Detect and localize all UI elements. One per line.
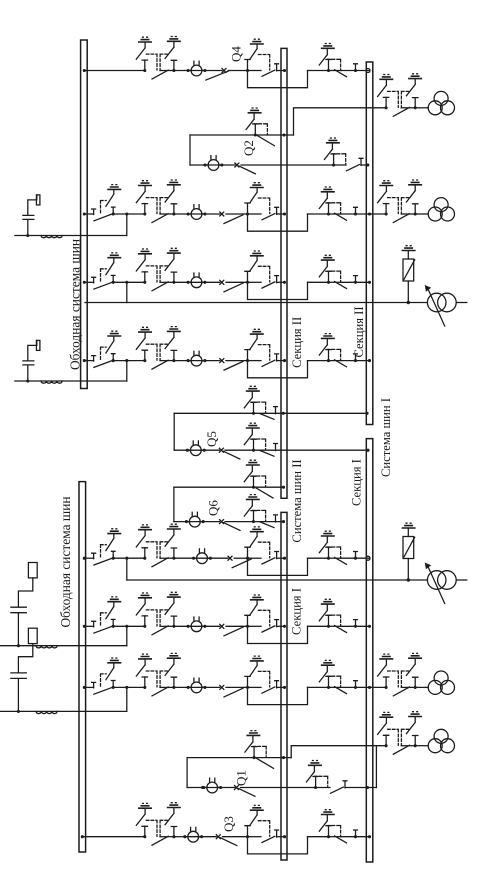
- wire bay 5 c: [234, 557, 247, 559]
- junction Q1 upper bus II: [282, 756, 285, 759]
- svg-text:Q2: Q2: [241, 140, 256, 156]
- wire bay 6 f: [308, 625, 329, 627]
- svg-text:Q6: Q6: [206, 500, 221, 516]
- wire bay 3 c: [226, 281, 248, 283]
- line tap drop bay 4: [126, 361, 128, 381]
- wire Q6 upper: [174, 486, 254, 488]
- wire Q4 bay b: [202, 70, 222, 72]
- line tap drop bay 7: [126, 687, 128, 711]
- wire Q4 bay d: [248, 70, 262, 72]
- bus I selector contact Q2: [359, 158, 363, 165]
- wire bay 7 from bypass bus: [84, 686, 93, 688]
- wire bay 6 b: [202, 625, 220, 627]
- wire Q1 lower b: [218, 787, 236, 789]
- earthing disconnector contact Q2 upper: [246, 108, 267, 137]
- earthing disconnector contact bay 3: [245, 251, 270, 284]
- disconnector blade bay 2: [224, 215, 243, 224]
- earthing disconnector contact Q1 lower: [306, 761, 327, 790]
- wire bay 6 from bypass bus: [84, 625, 93, 627]
- wire Q5 lower b: [201, 449, 219, 451]
- disconnector blade Q6 lower: [260, 522, 274, 528]
- junction bay 3 bus II: [283, 281, 286, 284]
- wire bay 3 d: [248, 281, 262, 283]
- svg-text:Система шин II: Система шин II: [290, 459, 304, 542]
- contact cross bay 4: [220, 359, 224, 363]
- disconnector blade Q6: [224, 523, 241, 531]
- bus II selector contact bay 6: [275, 620, 279, 627]
- wire bay 6 h: [341, 625, 370, 627]
- junction bay 5 line tap: [125, 557, 128, 560]
- transformer T1 (three-winding): [428, 91, 454, 114]
- disconnector blade Q2 upper: [258, 136, 275, 146]
- disconnector blade Q4 bay: [206, 71, 229, 80]
- wire Q6 lower: [174, 521, 190, 523]
- wire Q3 bay f: [308, 836, 329, 838]
- wire Q5 upper b: [254, 412, 368, 414]
- circuit breaker bay 4: [187, 351, 207, 366]
- earthing disconnector contact bay 6 2: [319, 599, 340, 628]
- wire Q3 bay from bypass bus: [82, 836, 145, 838]
- disconnector with two earthing switches feeder 3: [378, 712, 423, 755]
- junction Q4 bay g2: [354, 69, 357, 72]
- junction bay 5 bus II: [283, 557, 286, 560]
- disconnector blade bay 6: [224, 627, 243, 636]
- contact cross bay 2: [220, 212, 224, 216]
- disconnector blade bay 3: [224, 283, 243, 292]
- junction Q1 bus I: [366, 786, 369, 789]
- bus II selector blade Q3 bay: [262, 836, 275, 842]
- svg-text:Система шин I: Система шин I: [379, 398, 393, 477]
- bus II selector blade bay 5: [262, 558, 275, 564]
- coupling capacitor bay 2: [23, 195, 40, 237]
- disconnector with two earthing switches feeder 5: [378, 653, 423, 696]
- circuit breaker bay 6: [187, 617, 207, 632]
- wire bay 7 e: [277, 686, 285, 688]
- bypass disconnector with earthing switch bay 4: [92, 331, 122, 367]
- wire Q2 upper: [190, 134, 255, 136]
- wire bay 6 c: [226, 625, 248, 627]
- circuit breaker bay 5: [192, 549, 212, 564]
- bus I selector contact bay 5: [354, 552, 358, 559]
- contact cross bay 3: [220, 280, 224, 284]
- bus I selector contact Q1: [343, 781, 347, 788]
- svg-text:Секция I: Секция I: [290, 588, 304, 635]
- disconnector with two earthing switches Q4 bay: [136, 37, 181, 80]
- wire Q6 upper b: [254, 486, 285, 488]
- junction Q4 bay bypass bus: [83, 69, 86, 72]
- wire bay 7 c: [226, 686, 248, 688]
- wire bay 4 h: [341, 360, 370, 362]
- circuit breaker Q1: [202, 778, 222, 793]
- junction Q3 bay bus II: [283, 835, 286, 838]
- bus bus system I section II: [366, 62, 373, 425]
- wire bay 5 e: [277, 557, 285, 559]
- wire bay 7 f: [308, 686, 329, 688]
- wire bay 5 d: [248, 557, 262, 559]
- line tap drop bay 3: [126, 282, 128, 302]
- wire bay 3 b: [202, 281, 220, 283]
- svg-text:Обходная система шин: Обходная система шин: [58, 496, 73, 627]
- disconnector blade Q3 bay: [220, 838, 237, 846]
- bypass jog wire Q3 bay: [248, 837, 308, 854]
- wire Q3 bay g: [329, 836, 342, 838]
- bus II selector contact bay 7: [275, 681, 279, 688]
- junction bay 6 bypass bus: [83, 625, 86, 628]
- transformer T3 (three-winding): [428, 671, 454, 694]
- wire Q6 riser: [173, 487, 175, 521]
- bus II selector blade bay 2: [262, 214, 275, 220]
- wire bay 3 from bypass bus: [84, 281, 93, 283]
- earthing disconnector contact Q4 bay 2: [319, 44, 340, 73]
- junction Q3 bay bypass bus: [81, 835, 84, 838]
- junction bay 4 bus II: [283, 359, 286, 362]
- svg-text:Секция II: Секция II: [352, 306, 366, 357]
- earthing disconnector contact Q6 lower: [244, 495, 265, 524]
- wire bay 2 f: [308, 213, 329, 215]
- bus I selector contact bay 3: [354, 276, 358, 283]
- disconnector with two earthing switches bay 7: [136, 653, 181, 696]
- transmission line bay 7: [0, 710, 127, 712]
- earthing disconnector contact bay 5 2: [319, 531, 340, 560]
- wire bay 2 d: [248, 213, 262, 215]
- bus I selector blade bay 5: [335, 557, 347, 564]
- earthing disconnector contact bay 7 2: [319, 660, 340, 689]
- wire Q6 lower d: [254, 521, 285, 523]
- wire bay 2 from bypass bus: [84, 213, 93, 215]
- wire bay 2 c: [226, 213, 248, 215]
- junction Q2 bus I: [366, 163, 369, 166]
- wire feeder 3 drop to Q1: [375, 746, 377, 788]
- earthing disconnector contact Q5 upper: [244, 386, 265, 415]
- disconnector blade Q5 upper: [260, 414, 274, 420]
- wire feeder 3 to transformer: [415, 745, 428, 747]
- junction Q5 upper bus II: [282, 412, 285, 415]
- wire Q4 bay a: [174, 70, 191, 72]
- junction bay 3 line tap: [125, 281, 128, 284]
- junction bay 6 line tap: [125, 625, 128, 628]
- wire bay 5 link: [113, 557, 145, 559]
- wire bay 3 link: [113, 281, 145, 283]
- wire bay 5 from bypass bus: [84, 557, 93, 559]
- transmission line bay 2: [15, 235, 127, 237]
- bus II selector contact bay 5: [275, 552, 279, 559]
- earthing disconnector contact Q3 bay: [245, 805, 270, 838]
- wire bay 5 b: [207, 557, 228, 559]
- wire transformer feeder 1: [294, 108, 387, 135]
- bus I selector blade bay 6: [335, 626, 347, 633]
- bypass jog wire bay 6: [248, 626, 308, 643]
- circuit breaker Q5: [186, 441, 206, 456]
- disconnector with two earthing switches feeder 1: [378, 74, 423, 117]
- junction bay 3 bypass bus: [83, 281, 86, 284]
- junction bay 6 bus II: [283, 625, 286, 628]
- circuit breaker bay 7: [187, 678, 207, 693]
- wire bay 5 f: [308, 557, 329, 559]
- wire Q6 lower c: [225, 521, 254, 523]
- contact cross bay 7: [220, 685, 224, 689]
- wire bay 6 e: [277, 625, 285, 627]
- contact cross bay 5: [228, 556, 232, 560]
- junction Q3 bay g2: [354, 835, 357, 838]
- line trap (HF choke) bay 6: [36, 646, 57, 648]
- wire Q2 lower b: [219, 164, 235, 166]
- bus II selector blade bay 4: [262, 360, 275, 366]
- wire Q1 riser: [186, 758, 188, 788]
- junction bay 2 bus I: [368, 212, 371, 215]
- junction Q6 upper bus II: [282, 486, 285, 489]
- transformer T4 (three-winding): [428, 729, 454, 752]
- disconnector blade bay 5: [232, 559, 251, 568]
- earthing disconnector contact Q2 lower: [324, 138, 345, 167]
- wire bay 2 g: [329, 213, 342, 215]
- bus bypass bus (lower segment): [79, 482, 86, 852]
- junction bay 2 line tap: [125, 212, 128, 215]
- junction bay 7 g2: [354, 686, 357, 689]
- contact cross Q4 bay: [222, 69, 226, 73]
- svg-text:Q5: Q5: [204, 431, 219, 447]
- line trap (HF choke) bay 7: [36, 711, 57, 713]
- bus I selector blade Q2: [347, 165, 360, 171]
- circuit breaker Q2: [204, 156, 224, 171]
- bus II selector blade bay 6: [262, 626, 275, 632]
- junction bay 2 bypass bus: [83, 212, 86, 215]
- wire bay 4 e: [277, 360, 285, 362]
- line trap (HF choke) bay 2: [41, 236, 62, 238]
- bypass disconnector with earthing switch bay 5: [92, 529, 122, 565]
- bus I selector contact Q3 bay: [354, 830, 358, 837]
- wire Q5 upper: [174, 412, 253, 414]
- disconnector blade Q5: [223, 451, 240, 459]
- bus I selector blade Q3 bay: [335, 836, 347, 843]
- wire bay 2 b: [202, 213, 220, 215]
- contact Q5 upper: [274, 407, 278, 414]
- junction bay 3 g2: [354, 281, 357, 284]
- wire transformer feeder 3: [291, 746, 386, 758]
- wire bay 4 c: [226, 360, 248, 362]
- wire bay 4 d: [248, 360, 262, 362]
- wire Q1 lower: [187, 787, 207, 789]
- junction bay 2 g2: [354, 212, 357, 215]
- disconnector with two earthing switches bay 4: [136, 327, 181, 370]
- line tap drop bay 5: [126, 558, 128, 580]
- wire bay 6 link: [113, 625, 145, 627]
- wire Q1 lower e: [345, 787, 376, 789]
- bus I selector blade bay 3: [335, 282, 347, 289]
- bus I selector contact bay 2: [354, 207, 358, 214]
- bus II selector blade bay 3: [262, 282, 275, 288]
- bypass jog wire bay 7: [248, 687, 308, 704]
- junction Q5 lower bus I: [366, 449, 369, 452]
- transmission line bay 6: [0, 645, 127, 647]
- bus I selector blade Q1: [331, 787, 344, 793]
- junction bay 7 bus I: [368, 686, 371, 689]
- bus II selector contact bay 3: [275, 276, 279, 283]
- earthing disconnector contact bay 2: [245, 183, 270, 216]
- bus I selector contact bay 6: [354, 620, 358, 627]
- wire Q2 upper to bus II: [255, 134, 293, 136]
- earthing disconnector contact bay 7: [245, 656, 270, 689]
- wire bay 4 f: [308, 360, 329, 362]
- wire bay 4 a: [174, 360, 191, 362]
- circuit breaker bay 3: [187, 273, 207, 288]
- wire bay 7 g: [329, 686, 342, 688]
- disconnector with two earthing switches bay 2: [136, 180, 181, 223]
- bus I selector blade Q4 bay: [335, 70, 347, 77]
- wire transformer feeder 5: [370, 686, 387, 688]
- wire Q4 bay e: [277, 70, 285, 72]
- svg-text:Секция II: Секция II: [290, 317, 304, 368]
- earthing disconnector contact Q4 bay: [245, 39, 270, 72]
- wire bay 3 f: [308, 281, 329, 283]
- earthing disconnector contact bay 6: [245, 595, 270, 628]
- earthing disconnector contact bay 5: [245, 527, 270, 560]
- svg-text:Q3: Q3: [221, 816, 236, 832]
- wire bay 5 h: [341, 557, 370, 559]
- contact cross bay 6: [220, 624, 224, 628]
- line tap drop bay 6: [126, 626, 128, 645]
- wire Q1 upper b: [254, 757, 291, 759]
- wire Q2 riser: [189, 135, 191, 165]
- earthing disconnector contact bay 4 2: [319, 334, 340, 363]
- disconnector with two earthing switches Q3 bay: [136, 803, 181, 846]
- surge arrester F2: [402, 523, 467, 603]
- wire Q3 bay a: [174, 836, 188, 838]
- junction bay 7 bus II: [283, 686, 286, 689]
- bypass jog wire bay 4: [248, 361, 308, 378]
- junction Q4 bay bus II: [283, 69, 286, 72]
- wire Q6 lower b: [200, 521, 219, 523]
- disconnector with two earthing switches bay 5: [136, 524, 181, 567]
- earthing disconnector contact Q3 bay 2: [319, 810, 340, 839]
- wire Q5 lower: [174, 449, 190, 451]
- earthing disconnector contact bay 4: [245, 329, 270, 362]
- bus II selector contact bay 4: [275, 354, 279, 361]
- wire bay 7 d: [248, 686, 262, 688]
- wire feeder 1 to transformer: [415, 107, 428, 109]
- junction bay 4 g2: [354, 359, 357, 362]
- earthing disconnector contact Q1 upper: [245, 731, 266, 760]
- wire Q4 bay f: [308, 70, 329, 72]
- wire bay 5 a: [174, 557, 197, 559]
- junction bay 4 bus I: [368, 359, 371, 362]
- bypass jog wire bay 3: [248, 282, 308, 299]
- disconnector blade Q6 upper: [256, 488, 273, 498]
- disconnector blade Q1: [239, 789, 256, 797]
- autotransformer feeder 2 wire: [127, 579, 428, 581]
- junction Q3 bay bus I: [368, 835, 371, 838]
- disconnector blade bay 7: [224, 688, 243, 697]
- svg-text:Обходная система шин: Обходная система шин: [68, 239, 83, 370]
- bus bus system II section I: [281, 512, 287, 860]
- wire bay 6 a: [174, 625, 191, 627]
- bus I selector contact bay 7: [354, 681, 358, 688]
- bus I selector blade bay 2: [335, 213, 347, 220]
- bypass jog wire bay 5: [248, 558, 308, 575]
- disconnector with two earthing switches feeder 2: [378, 180, 423, 223]
- wire bay 4 g: [329, 360, 342, 362]
- coupling capacitor bay 4: [23, 340, 40, 382]
- bus II selector blade bay 7: [262, 687, 275, 693]
- junction bay 5 bus I (circle): [366, 556, 370, 560]
- disconnector with two earthing switches bay 3: [136, 248, 181, 291]
- circuit breaker Q4 bay: [187, 61, 207, 76]
- bus I selector blade bay 7: [335, 687, 347, 694]
- contact Q6 lower: [274, 515, 278, 522]
- bus I selector blade bay 4: [335, 360, 347, 367]
- bypass disconnector with earthing switch bay 3: [92, 253, 122, 289]
- junction bay 6 bus I: [368, 625, 371, 628]
- earthing disconnector contact Q5 lower: [244, 423, 265, 452]
- coupling capacitor bay 6: [11, 563, 37, 648]
- transmission line bay 4: [15, 380, 127, 382]
- bypass disconnector with earthing switch bay 2: [92, 185, 122, 221]
- bus II selector contact bay 2: [275, 207, 279, 214]
- junction bay 5 bypass bus: [83, 557, 86, 560]
- wire Q3 bay d: [248, 836, 262, 838]
- wire bay 4 from bypass bus: [84, 360, 93, 362]
- wire bay 5 g: [329, 557, 342, 559]
- contact cross Q3 bay: [216, 835, 220, 839]
- bus I selector contact Q4 bay: [354, 64, 358, 71]
- disconnector blade Q1 upper: [257, 758, 274, 768]
- wire feeder 5 to transformer: [415, 686, 428, 688]
- surge arrester F1: [402, 246, 467, 326]
- wire bay 7 link: [113, 686, 145, 688]
- svg-text:Q1: Q1: [234, 770, 249, 786]
- bus bus system II section II: [281, 48, 287, 498]
- wire Q2 lower c: [241, 164, 334, 166]
- svg-text:Секция I: Секция I: [349, 459, 363, 506]
- contact cross Q5: [219, 448, 223, 452]
- wire Q4 bay h: [341, 70, 370, 72]
- wire Q5 lower d: [254, 449, 369, 451]
- circuit breaker Q3 bay: [183, 827, 203, 842]
- bypass disconnector with earthing switch bay 7: [92, 658, 122, 694]
- bus II selector blade Q4 bay: [262, 70, 275, 76]
- wire Q3 bay h: [341, 836, 370, 838]
- wire bay 2 e: [277, 213, 285, 215]
- wire Q2 lower e: [361, 164, 368, 166]
- junction bay 4 line tap: [125, 359, 128, 362]
- wire bay 4 b: [202, 360, 220, 362]
- junction Q2 upper bus II: [282, 133, 285, 136]
- wire bay 6 d: [248, 625, 262, 627]
- junction bay 4 bypass bus: [83, 359, 86, 362]
- bus bypass bus (upper segment): [81, 40, 88, 389]
- earthing disconnector contact bay 3 2: [319, 255, 340, 284]
- contact cross Q6: [220, 520, 224, 524]
- wire Q3 bay c: [223, 836, 248, 838]
- wire transformer feeder 2: [370, 213, 387, 215]
- wire Q1 upper: [187, 757, 254, 759]
- earthing disconnector contact bay 2 2: [319, 187, 340, 216]
- wire bay 3 g: [329, 281, 342, 283]
- contact cross Q1: [235, 786, 239, 790]
- wire Q2 lower: [190, 164, 208, 166]
- junction bay 7 line tap: [125, 686, 128, 689]
- bypass disconnector with earthing switch bay 6: [92, 597, 122, 633]
- junction bay 3 bus I: [368, 281, 371, 284]
- disconnector blade Q5 lower: [260, 451, 274, 457]
- disconnector with two earthing switches bay 6: [136, 592, 181, 635]
- wire bay 3 h: [341, 281, 370, 283]
- line tap drop bay 2: [126, 214, 128, 236]
- svg-text:Q4: Q4: [229, 46, 244, 62]
- coupling capacitor bay 7: [11, 628, 37, 713]
- wire feeder 2 to transformer: [415, 213, 428, 215]
- wire bay 7 h: [341, 686, 370, 688]
- wire Q5 lower c: [225, 449, 254, 451]
